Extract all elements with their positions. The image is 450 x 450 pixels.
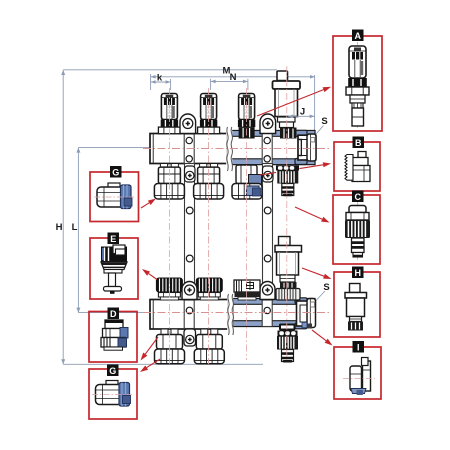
- callout D part: middle blue cap: [120, 328, 128, 339]
- callout D part: lower blue cap: [118, 338, 127, 347]
- flow meter 1 hex nut: [158, 127, 180, 134]
- callout A part: flow meter glass: [349, 46, 366, 78]
- bracket strap 1 hole lower: [186, 255, 193, 262]
- callout I part: right slab: [363, 361, 371, 391]
- bottom bar right section body: [233, 299, 315, 327]
- dimension L top extension line: [78, 147, 150, 149]
- callout E part: foot: [104, 287, 122, 292]
- top bar right pipe bottom wall (blue): [231, 159, 315, 165]
- callout G1 centerline: [94, 196, 134, 198]
- bottom outlet 1 collar: [161, 329, 178, 335]
- drain oval collar row: [278, 331, 298, 337]
- air vent flange: [273, 81, 301, 89]
- bracket 2 ear above bottom bar: [260, 282, 275, 300]
- bottom outlet 2 collar: [201, 329, 218, 335]
- callout H part: neck rings: [350, 317, 362, 322]
- bracket strap 2 hole upper: [264, 207, 271, 214]
- top bar break gap: [226, 127, 232, 171]
- callout E part: collar: [104, 270, 122, 274]
- callout D part: lower block: [101, 338, 126, 348]
- arrowhead D: [141, 353, 148, 361]
- callout C part: barb stem: [352, 238, 365, 253]
- bracket strap 2 hole lower: [264, 255, 271, 262]
- dimension H vertical line: [62, 70, 64, 364]
- bracket 2 bottom-bar ear screw: [263, 285, 273, 295]
- fill valve dark union band: [280, 282, 297, 289]
- arrowhead G2: [140, 366, 148, 373]
- outlet 1 hex: [158, 167, 180, 183]
- bottom bar break gap: [227, 294, 233, 335]
- arrowhead G1: [148, 199, 156, 206]
- fill valve neck: [280, 275, 295, 282]
- bottom bar right pipe bottom wall (blue): [233, 321, 315, 327]
- callout A part: hex: [346, 87, 369, 95]
- thermo cap 2 on bottom bar: [196, 278, 223, 301]
- arrow K right: [166, 80, 171, 84]
- bottom bar break squiggle right: [232, 294, 233, 335]
- arrow M left: [151, 75, 156, 79]
- arrow L bottom: [76, 308, 80, 313]
- bracket 1 ear above bottom bar: [182, 282, 197, 300]
- bottom outlet 1 hex: [157, 335, 183, 350]
- callout C part: tail: [353, 253, 363, 258]
- top manifold bar left body: [150, 134, 227, 164]
- top bar darker blue stub bottom right: [295, 159, 307, 165]
- callout D part: top block: [105, 320, 123, 329]
- air vent body: [275, 89, 298, 117]
- extension tick at manifold left: [150, 74, 152, 90]
- dimension J line (over parts): [288, 107, 315, 119]
- drain knurled body: [277, 336, 298, 350]
- callout G2 part: body: [96, 385, 125, 405]
- dimension L bottom extension line: [78, 312, 150, 314]
- air vent dark union: [280, 128, 297, 139]
- bracket strap 2 across bottom bar: [262, 299, 272, 327]
- bracket strap 1 between bars: [185, 164, 195, 301]
- outlet 2 hex: [198, 167, 220, 183]
- S bottom leader: [316, 291, 326, 301]
- svg-text:D: D: [110, 309, 117, 319]
- arrow N left: [211, 80, 216, 84]
- outlet 3 under top bar: hex: [236, 165, 257, 184]
- arrowhead B: [323, 162, 331, 167]
- callout G2 part: blue lug: [123, 396, 131, 404]
- svg-text:S: S: [321, 116, 327, 127]
- bracket strap 1 across bottom bar: [184, 300, 194, 329]
- dimension H bottom extension line: [63, 363, 263, 365]
- arrow N right: [243, 80, 248, 84]
- callout E part: tip: [110, 291, 115, 294]
- callout box I frame: [334, 347, 381, 399]
- callout G1 part: blue ring: [121, 185, 132, 209]
- centerline horizontal bottom bar axis: [143, 312, 331, 314]
- callout B part: toothed bar: [345, 155, 353, 181]
- callout H part: small top block: [350, 284, 361, 293]
- flow meter 3 black valve block: [239, 127, 255, 138]
- leader from part to box E: [149, 274, 157, 280]
- bracket strap 1 across top bar: [184, 134, 194, 164]
- callout box G2 frame: [89, 369, 137, 419]
- dimension L vertical line: [77, 148, 79, 313]
- callout G1 part: blue lug: [124, 198, 132, 206]
- callout box E frame: [90, 238, 138, 299]
- centerline vertical position 3: [246, 88, 248, 360]
- callout D part: middle block: [103, 329, 127, 338]
- callout C centerline: [357, 202, 359, 260]
- leader to part from box G1: [141, 203, 149, 208]
- svg-text:C: C: [354, 192, 361, 202]
- bottom end fitting right cap: [307, 299, 316, 328]
- leader to box H: [302, 268, 324, 276]
- S top leader: [315, 126, 324, 136]
- outlet 2 under top bar: collar: [200, 164, 218, 168]
- callout C part: top cap: [349, 206, 366, 213]
- bracket 1 bottom-bar ear screw: [185, 285, 195, 295]
- callout A part: lower tube: [352, 108, 364, 126]
- leader from part to box G2: [147, 359, 160, 368]
- callout G1 part: top tab: [108, 183, 120, 189]
- callout box C frame: [333, 195, 380, 264]
- callout I label plate: [353, 341, 365, 353]
- fill valve knurled ring: [276, 289, 300, 301]
- part C barb stem: [282, 184, 294, 196]
- pos3 element collar: [238, 297, 256, 300]
- callout A label plate: [352, 30, 364, 42]
- svg-text:k: k: [157, 73, 163, 84]
- bracket 2 ear under top bar: [263, 166, 274, 182]
- bottom end fitting notch: [311, 302, 315, 307]
- callout G1 label plate: [110, 166, 122, 178]
- callout E part: stem: [109, 273, 116, 287]
- callout C label plate: [352, 191, 364, 203]
- bottom bar break squiggle left: [228, 294, 229, 335]
- bottom end drain tip dark: [307, 324, 313, 329]
- callout C part: upper ring: [346, 213, 369, 221]
- drain barb stem: [282, 350, 294, 362]
- callout E part: cap notch: [113, 245, 125, 254]
- centerline horizontal top bar axis: [143, 148, 331, 150]
- outlet 1 under top bar: collar: [160, 164, 178, 168]
- callout I centerline: [343, 378, 375, 380]
- callout box G1 frame: [90, 172, 139, 222]
- callout B part: bracket clamp: [358, 152, 366, 158]
- callout box D frame: [89, 312, 137, 363]
- bottom end fitting frame: [297, 301, 309, 326]
- arrowhead A: [323, 87, 331, 92]
- bracket 1 hole on bottom bar: [186, 307, 193, 314]
- flow meter 1 black base: [161, 120, 178, 128]
- callout box B frame: [334, 142, 380, 191]
- arrow M right: [310, 75, 315, 79]
- bottom bar darker blue stub bottom right: [295, 323, 307, 329]
- pos3 element on bottom bar body: [234, 280, 260, 292]
- extension tick at FM2 center: [210, 79, 212, 90]
- bracket strap 2 between bars: [263, 164, 273, 301]
- bracket strap 1 hole upper: [186, 207, 193, 214]
- svg-text:E: E: [110, 234, 116, 244]
- flow meter 3 black base: [238, 120, 255, 128]
- dimension H top extension line: [63, 69, 277, 71]
- flow meter 2 hex nut: [198, 127, 220, 134]
- arrow H top: [61, 70, 65, 75]
- arrowhead I: [325, 339, 333, 346]
- arrow L top: [76, 148, 80, 153]
- leader to box I: [312, 330, 326, 341]
- callout E label plate: [108, 233, 120, 245]
- callout C part: knurled body: [345, 220, 370, 238]
- leader to box B: [260, 165, 323, 175]
- callout B label plate: [353, 137, 365, 149]
- svg-text:G: G: [112, 167, 119, 177]
- top end fitting right cap: [307, 134, 316, 161]
- callout E part: flange: [101, 262, 127, 270]
- air vent rings: [280, 122, 294, 128]
- svg-text:H: H: [56, 222, 63, 233]
- bracket strap 2 across top bar: [262, 131, 272, 164]
- svg-text:I: I: [357, 342, 360, 352]
- leader to box C: [295, 207, 322, 219]
- top bar right pipe top wall (blue): [231, 131, 315, 137]
- bracket 1 under-bar screw: [186, 171, 194, 179]
- svg-text:J: J: [300, 107, 305, 118]
- top bar break squiggle left: [227, 127, 228, 171]
- bracket 2 top ear screw: [263, 119, 273, 129]
- outlet 3 blue drain elbow: [247, 186, 260, 196]
- top end fitting notch: [311, 138, 315, 143]
- callout D label plate: [108, 308, 120, 320]
- callout D part: lip: [104, 347, 123, 350]
- top bar left end face: [152, 134, 154, 164]
- svg-text:H: H: [354, 268, 361, 278]
- dimension K line: [151, 81, 171, 83]
- arrow K left: [151, 80, 156, 84]
- callout box H frame: [334, 272, 380, 337]
- leader to box A: [257, 90, 324, 116]
- bottom bar right pipe top wall (blue): [233, 299, 315, 305]
- callout G2 centerline: [92, 394, 132, 396]
- fill valve body: [277, 252, 299, 275]
- fill valve cap plate: [275, 246, 302, 253]
- flow meter 2 glass: [201, 94, 217, 120]
- bottom manifold bar left body: [150, 300, 228, 330]
- dimension M line: [151, 76, 315, 78]
- centerline vertical position 2: [208, 88, 210, 364]
- bracket 1 under-bottom-bar screw: [186, 335, 194, 343]
- pos3 element dark base: [235, 292, 260, 297]
- part C knurled body: [277, 171, 298, 184]
- callout H part: dark union: [348, 322, 363, 331]
- fill valve (part H) small top block: [279, 237, 291, 246]
- flow meter 3 glass: [239, 94, 255, 120]
- drain top clamp below bottom bar: [279, 324, 296, 331]
- bracket 1 ear under bottom bar: [184, 329, 196, 346]
- extension tick at FM1 center: [170, 79, 172, 90]
- callout A part: collar rings: [350, 95, 365, 103]
- bottom end blue accent: [302, 322, 307, 328]
- flow meter 1 glass: [161, 94, 177, 120]
- bracket 1 top ear screw: [183, 119, 193, 129]
- centerline vertical position 1: [168, 88, 170, 364]
- outlet 2 cone nut: [194, 184, 224, 200]
- top bar right section body: [231, 131, 315, 165]
- svg-text:L: L: [72, 222, 78, 233]
- bracket 1 top ear above top bar: [180, 114, 196, 134]
- extension line right end S: [314, 75, 316, 133]
- bracket 2 top ear above top bar: [260, 114, 276, 134]
- callout G1 part: body: [97, 187, 126, 207]
- outlet 3 cone nut: [232, 184, 262, 200]
- pos3 element cross detail: [247, 283, 254, 289]
- arrowhead E: [142, 269, 150, 276]
- outlet 1 cone nut: [154, 184, 184, 200]
- outlet 3 valve blue part upper: [249, 175, 262, 185]
- callout A centerline: [357, 42, 359, 128]
- callout H part: body: [347, 298, 365, 317]
- bottom outlet 1 cone nut: [155, 349, 185, 364]
- callout H label plate: [352, 267, 364, 279]
- bottom bar darker blue stub top right: [295, 298, 307, 304]
- bracket 2 under-bar screw: [264, 171, 272, 179]
- callout H part: cap plate: [345, 293, 367, 299]
- callout G2 label plate: [107, 365, 119, 377]
- thermo cap 1 on bottom bar: [156, 278, 183, 301]
- callout A part: thread: [352, 103, 363, 108]
- part C collar row under top bar: [276, 165, 299, 170]
- bottom outlet 2 hex: [196, 335, 222, 350]
- flow meter 2 black base: [200, 120, 217, 128]
- svg-text:A: A: [354, 31, 361, 41]
- top bar darker blue stub top right: [295, 130, 307, 136]
- svg-text:B: B: [355, 138, 362, 148]
- bottom outlet 2 cone nut: [194, 349, 224, 364]
- top bar break squiggle right: [231, 127, 232, 171]
- dimension N line: [211, 80, 248, 82]
- arrow H bottom: [61, 359, 65, 364]
- arrowhead H: [323, 274, 331, 279]
- callout G2 part: top tab: [106, 381, 118, 387]
- bottom bar left end face: [152, 300, 154, 330]
- callout I part: blue foot: [351, 389, 366, 394]
- leader from part to box D: [145, 337, 158, 354]
- callout G2 part: blue ring: [119, 383, 130, 407]
- extension tick at FM3 center: [247, 79, 249, 90]
- callout A part: black band: [348, 78, 367, 87]
- air vent cap: [277, 71, 288, 81]
- svg-text:G: G: [109, 366, 116, 376]
- centerline vertical vent/drain: [286, 66, 288, 360]
- top end fitting frame: [298, 135, 316, 160]
- svg-text:N: N: [230, 72, 237, 83]
- air vent lower step: [278, 117, 296, 122]
- arrowhead C: [321, 217, 329, 223]
- callout E part: cap body: [101, 247, 127, 263]
- callout I part: top tab: [362, 358, 369, 366]
- callout box A frame: [333, 36, 382, 131]
- callout I part: left cylinder: [350, 366, 362, 391]
- bracket 1 ear under top bar: [185, 166, 196, 182]
